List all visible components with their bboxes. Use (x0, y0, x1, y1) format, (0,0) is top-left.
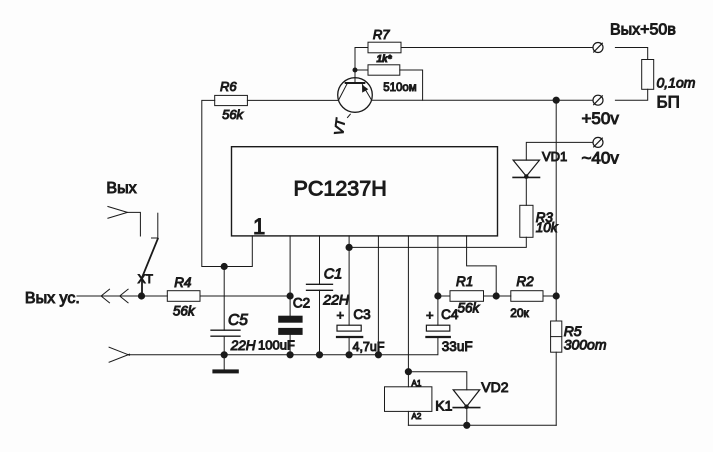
wire C5 to ground wire (223, 336, 225, 355)
svg-text:56k: 56k (222, 107, 244, 122)
svg-text:C5: C5 (228, 312, 248, 329)
svg-text:Вых+50в: Вых+50в (610, 22, 676, 39)
svg-text:R6: R6 (220, 79, 237, 94)
svg-text:C3: C3 (353, 307, 370, 322)
wire R2 left lead (496, 295, 511, 297)
label Vyh us. with arrows (25, 289, 128, 307)
wire pin 5 to ground wire (377, 236, 379, 355)
node ground bus C5 (221, 352, 227, 358)
capacitor C1 (307, 266, 350, 307)
wire C5 branch down (223, 267, 225, 331)
svg-text:~40v: ~40v (582, 148, 620, 167)
terminal ~40v (582, 137, 620, 167)
wire pin 3 down to C1 (319, 236, 321, 284)
wire shunt bottom to +50v terminal (615, 89, 647, 100)
resistor R2 (510, 274, 543, 320)
wire 510ohm right lead down to emitter line (400, 70, 423, 100)
terminal Vyh+50v (593, 22, 676, 53)
wire pin 6 down to relay (407, 236, 409, 387)
wire R3 bottom to pin 4 (349, 237, 526, 247)
wire +50v rail down (555, 100, 557, 296)
wire R4 right lead to C2 (200, 295, 290, 297)
wire R1 right lead (484, 295, 497, 297)
node R1 left / C4 (435, 293, 441, 299)
svg-text:C2: C2 (293, 295, 310, 310)
svg-text:10k: 10k (536, 220, 559, 235)
svg-text:300om: 300om (564, 337, 607, 353)
svg-text:XT: XT (138, 272, 154, 286)
transistor VT (331, 78, 372, 136)
wire ground stub (223, 355, 225, 370)
wire R5 bottom to relay return (555, 352, 557, 425)
node pin1/C5 junction (221, 263, 227, 269)
relay K1 (385, 379, 453, 421)
wire relay bottom (407, 411, 409, 425)
node ground bus C3 (346, 352, 352, 358)
svg-text:20к: 20к (510, 306, 529, 320)
svg-text:510ом: 510ом (383, 82, 417, 94)
capacitor C4 (426, 307, 473, 354)
wire pin 2 down to C2 (289, 236, 291, 316)
svg-text:56k: 56k (458, 301, 481, 316)
svg-text:R7: R7 (373, 27, 390, 42)
node XT/R4 junction (138, 293, 144, 299)
svg-text:22H: 22H (322, 291, 350, 307)
wire VD2 cathode down (466, 408, 468, 426)
wire R7 left lead and collector vertical (355, 48, 368, 84)
svg-text:R1: R1 (456, 274, 473, 289)
resistor 510om (368, 65, 417, 94)
switch XT (138, 213, 158, 296)
svg-text:1: 1 (253, 214, 265, 239)
node +50v rail junction (553, 97, 559, 103)
ground (212, 369, 238, 373)
resistor 0,1om (shunt) (642, 60, 696, 112)
svg-text:C4: C4 (441, 307, 459, 322)
resistor R5 (551, 321, 607, 353)
IC U1 PC1237H (232, 147, 498, 239)
node base junction (353, 68, 357, 72)
wire pin 1 down left and up to R6 (202, 100, 253, 266)
wire pin 8 to R1/R2 junction (467, 236, 497, 296)
svg-text:R4: R4 (174, 275, 191, 290)
node relay/VD2 junction (405, 369, 411, 375)
resistor R4 (167, 275, 200, 318)
wire R7 right lead to terminal (402, 47, 593, 49)
node pin4/R3 (346, 244, 352, 250)
node ground bus pin5 (375, 352, 381, 358)
svg-text:1k*: 1k* (377, 54, 393, 65)
capacitor C5 (211, 312, 256, 353)
resistor R1 (450, 274, 484, 316)
svg-text:R2: R2 (516, 274, 534, 289)
svg-text:33uF: 33uF (442, 339, 473, 354)
svg-text:C1: C1 (324, 266, 343, 282)
resistor R3 (520, 205, 559, 237)
svg-text:22H: 22H (230, 338, 256, 353)
node VD2/relay return (464, 422, 470, 428)
wire R2 right lead (543, 295, 556, 297)
node C2 top (287, 293, 293, 299)
svg-text:PC1237H: PC1237H (294, 176, 387, 200)
svg-text:БП: БП (657, 93, 680, 112)
wire C3 bottom (348, 338, 350, 355)
wire Vyh input with arrow (106, 180, 140, 236)
wire C4 bottom and ground bus (128, 338, 438, 355)
wire 510ohm left lead (355, 69, 368, 71)
svg-text:0,1om: 0,1om (657, 75, 696, 91)
terminal +50v (582, 95, 620, 128)
svg-text:VD2: VD2 (481, 379, 508, 395)
svg-text:56k: 56k (173, 303, 196, 318)
wire relay return to rail (408, 424, 556, 426)
node ground bus C1 (316, 352, 322, 358)
capacitor C2 (258, 295, 310, 352)
wire pin 7 down to C4 (437, 236, 439, 325)
svg-text:A2: A2 (412, 412, 422, 421)
wire pin 4 down through node to C3 (348, 236, 350, 325)
svg-text:+50v: +50v (582, 109, 620, 128)
wire VD2 branch (408, 372, 466, 390)
wire emitter to +50v terminal (372, 99, 593, 101)
wire Vyh us. row (77, 295, 167, 297)
node ground bus C2 (287, 352, 293, 358)
wire VD1 to R3 (525, 177, 527, 205)
node R2/rail junction (553, 293, 559, 299)
svg-text:K1: K1 (435, 398, 452, 414)
wire C2 bottom (289, 335, 291, 355)
svg-text:A1: A1 (412, 379, 422, 388)
wire rail R2 to R5 (555, 296, 557, 321)
svg-text:Вых: Вых (106, 180, 136, 197)
svg-text:+: + (426, 308, 434, 323)
diode VD2 (453, 379, 509, 409)
resistor R7 (368, 27, 401, 65)
wire ~40v to VD1 (526, 142, 593, 160)
svg-text:+: + (337, 308, 345, 323)
diode VD1 (513, 149, 567, 178)
wire bottom input with arrow (109, 347, 129, 355)
svg-text:VT: VT (331, 117, 348, 136)
svg-text:VD1: VD1 (542, 149, 567, 164)
node R1/R2 junction (493, 293, 499, 299)
resistor R6 (215, 79, 248, 122)
wire R1 left lead (438, 295, 450, 297)
svg-text:Вых ус.: Вых ус. (25, 290, 80, 307)
wire terminal to shunt resistor (615, 48, 647, 60)
svg-text:100uF: 100uF (258, 338, 295, 353)
capacitor C3 (337, 307, 385, 354)
wire C1 bottom (319, 290, 321, 355)
wire base from R6 (247, 99, 338, 101)
